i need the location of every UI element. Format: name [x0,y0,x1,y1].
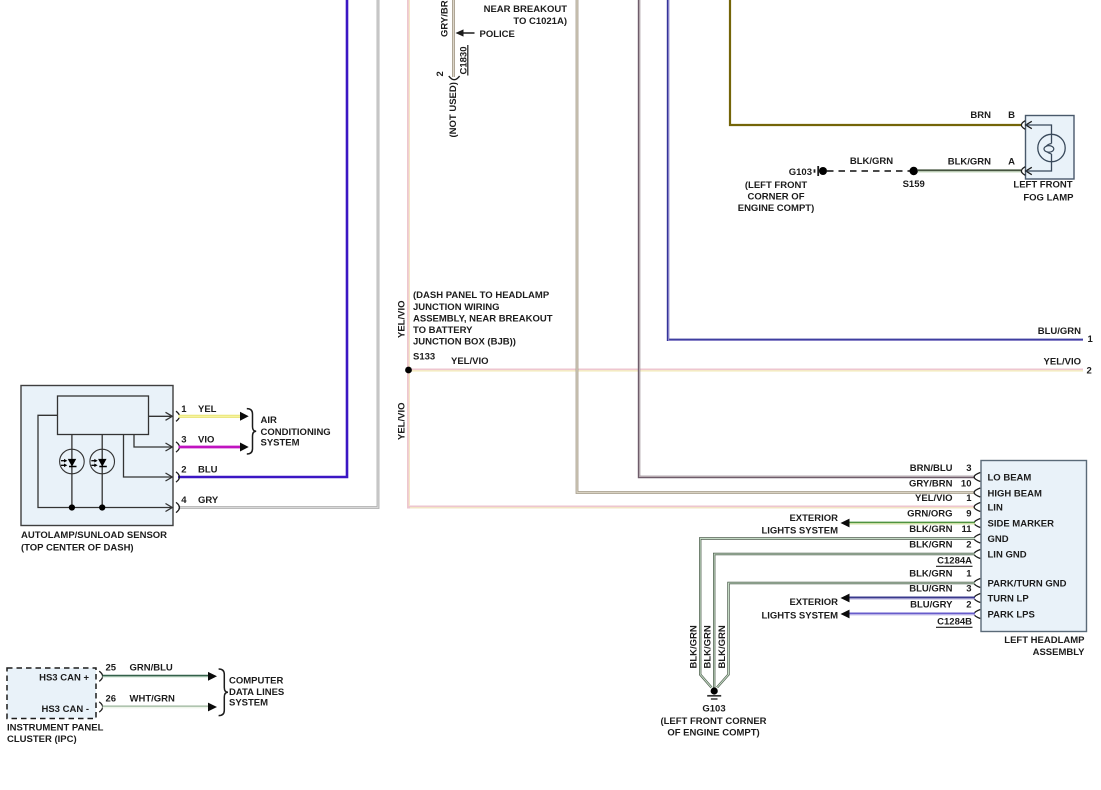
headlamp pin 1 connector cup (PARK/TURN GND) [974,579,980,588]
svg-text:2: 2 [1087,366,1092,377]
wire GRN/BLU from IPC pin 25 [103,672,218,681]
svg-text:PARK/TURN GND: PARK/TURN GND [988,579,1067,590]
wire GRN/ORG from exterior lights system arrow to pin 9 [841,519,976,528]
pin 26 and WHT/GRN labels [106,694,176,705]
svg-text:SIDE MARKER: SIDE MARKER [988,519,1055,530]
svg-text:1: 1 [1088,334,1094,345]
headlamp pin 11 connector cup (GND) [974,534,980,543]
fog lamp caption [1013,180,1074,204]
svg-text:2: 2 [181,465,186,476]
wire label BLK/GRN pin 2 [909,540,971,551]
svg-text:2: 2 [435,71,446,76]
wire YEL/VIO horizontal from S133 to right edge pin 2 [409,369,1084,373]
svg-text:11: 11 [961,524,972,535]
wire label YEL/VIO pin 1 [915,493,972,504]
instrument panel cluster box (dashed) [7,668,96,719]
svg-text:BLK/GRN: BLK/GRN [948,157,991,168]
label YEL/VIO and pin 2 at right edge [1044,357,1092,377]
svg-text:4: 4 [181,495,187,506]
G103 location text (LEFT FRONT CORNER OF ENGINE COMPT) [738,180,815,214]
svg-text:A: A [1008,157,1015,168]
svg-text:LEFT FRONT: LEFT FRONT [1013,180,1072,191]
svg-text:YEL/VIO: YEL/VIO [397,301,408,338]
svg-text:JUNCTION WIRING: JUNCTION WIRING [413,302,500,313]
svg-text:S159: S159 [903,179,925,190]
svg-text:AUTOLAMP/SUNLOAD SENSOR: AUTOLAMP/SUNLOAD SENSOR [21,530,167,541]
svg-text:ASSEMBLY: ASSEMBLY [1033,647,1086,658]
sensor pin 2 connector cup [176,472,179,482]
svg-text:LIGHTS SYSTEM: LIGHTS SYSTEM [761,526,838,537]
YEL wire arrow into air conditioning system [240,412,249,421]
ground G103 labels [660,704,766,739]
photodiode D1 vertical wire [71,435,73,508]
svg-text:2: 2 [966,540,971,551]
svg-text:FOG LAMP: FOG LAMP [1023,193,1074,204]
sensor pin 1 connector cup [176,411,179,421]
svg-text:G103: G103 [789,167,812,178]
svg-text:YEL/VIO: YEL/VIO [1044,357,1081,368]
svg-text:BLK/GRN: BLK/GRN [689,625,700,668]
wire BRN/BLU from top edge to headlamp LO BEAM pin 3 [639,0,975,477]
svg-text:BLK/GRN: BLK/GRN [717,625,728,668]
wire BLK/GRN pin 1 (PARK/TURN GND) down to G103 [717,583,975,688]
splice S159 junction dot [910,167,918,175]
wire YEL/VIO vertical from top through splice S133 to headlamp LIN pin 1 [409,0,976,508]
label BLU/GRN and pin 1 at right edge [1038,326,1094,345]
VIO wire arrow into air conditioning system [240,443,249,452]
svg-text:26: 26 [106,694,117,705]
svg-text:TO C1021A): TO C1021A) [513,16,567,27]
svg-text:2: 2 [966,600,971,611]
svg-text:BLU/GRN: BLU/GRN [1038,326,1081,337]
svg-text:GRN/BLU: GRN/BLU [130,663,173,674]
svg-text:BLK/GRN: BLK/GRN [703,625,714,668]
sensor internal ground bus wire to pin 4 with arrow [38,415,172,511]
svg-text:CLUSTER (IPC): CLUSTER (IPC) [7,734,77,745]
sensor caption [21,530,167,554]
ground G103 symbol at bottom [707,687,721,699]
wire BLU/GRY (PARK LPS) from exterior lights arrow to pin 2 [841,610,976,619]
brace to computer data lines system [219,669,228,716]
svg-text:10: 10 [961,478,972,489]
svg-text:PARK LPS: PARK LPS [988,610,1035,621]
headlamp pin 2 connector cup (PARK LPS) [974,610,980,619]
pin 1 and YEL labels [181,404,216,415]
svg-text:HS3 CAN -: HS3 CAN - [41,704,89,715]
splice S133 junction dot [405,367,412,374]
wire label GRN/ORG pin 9 [907,509,971,520]
autolamp/sunload sensor box [21,386,173,526]
svg-text:S133: S133 [413,352,435,363]
sensor internal wire to pin 2 with arrow [124,435,173,482]
connector label C1284B underlined [936,617,973,628]
svg-text:YEL: YEL [198,404,217,415]
svg-text:(LEFT FRONT CORNER: (LEFT FRONT CORNER [660,716,766,727]
svg-text:1: 1 [966,569,972,580]
left front fog lamp box [1026,116,1075,180]
svg-text:(DASH PANEL TO HEADLAMP: (DASH PANEL TO HEADLAMP [413,290,550,301]
wire BRN from top edge to fog lamp pin B [730,0,1021,125]
svg-text:EXTERIOR: EXTERIOR [789,597,838,608]
sensor inner module box [58,396,149,435]
svg-text:BRN/BLU: BRN/BLU [910,463,953,474]
headlamp internal pin names [988,473,1067,621]
wire GRY from sensor pin 4 up to top edge [178,0,378,508]
svg-text:TURN LP: TURN LP [988,594,1030,605]
junction dot D1/ground bus [69,504,75,510]
junction dot D2/ground bus [99,504,105,510]
wire BLU from sensor pin 2 up to top edge [178,0,347,477]
svg-text:INSTRUMENT PANEL: INSTRUMENT PANEL [7,723,104,734]
svg-text:ENGINE COMPT): ENGINE COMPT) [738,203,815,214]
svg-text:B: B [1008,110,1015,121]
svg-text:COMPUTER: COMPUTER [229,676,284,687]
svg-text:LIN: LIN [988,503,1003,514]
headlamp pin 2 connector cup (LIN GND) [974,550,980,559]
pin 25 and GRN/BLU labels [106,663,173,674]
IPC pin 25 connector cup [99,671,102,681]
wire label BLK/GRN pin 11 [909,524,972,535]
svg-text:YEL/VIO: YEL/VIO [397,403,408,440]
svg-text:(TOP CENTER OF DASH): (TOP CENTER OF DASH) [21,543,134,554]
headlamp pin 3 connector cup (LO BEAM) [974,473,980,482]
svg-text:9: 9 [966,509,971,520]
node S133 description text (DASH PANEL TO HEADLAMP JUNCTION WIRING ASSEMBLY...) [413,290,553,348]
svg-text:BLU/GRY: BLU/GRY [910,600,953,611]
sensor internal wire to pin 3 with arrow [134,435,172,452]
wire label GRY/BRN pin 10 [909,478,971,489]
svg-text:EXTERIOR: EXTERIOR [789,513,838,524]
svg-text:LIGHTS SYSTEM: LIGHTS SYSTEM [761,611,838,622]
sensor pin 4 connector cup [176,502,179,512]
air conditioning system text [261,415,331,449]
svg-text:(LEFT FRONT: (LEFT FRONT [745,180,807,191]
IPC pin 26 connector cup [99,702,102,712]
exterior lights system text (side marker) [761,513,838,537]
wire GRY/BRN from top edge to headlamp HIGH BEAM pin 10 [577,0,975,493]
photodiode D2 symbol [90,449,115,474]
wire BLK/GRN pin 2 (LIN GND) down to G103 [714,554,975,689]
brace to air conditioning system [247,409,256,454]
svg-text:TO BATTERY: TO BATTERY [413,325,473,336]
pin 3 and VIO labels [181,435,214,446]
svg-text:LEFT HEADLAMP: LEFT HEADLAMP [1004,635,1085,646]
svg-text:AIR: AIR [261,415,278,426]
svg-text:BLU/GRN: BLU/GRN [909,584,952,595]
photodiode D1 symbol [60,449,85,474]
photodiode D2 vertical wire [101,435,103,508]
wire BLK/GRN dashed from G103 to S159 [827,170,910,172]
wire BLU/GRN from top edge to right edge pin 1 [668,0,1083,340]
sensor pin 3 connector cup [176,442,179,452]
ground point G103 symbol (left, near fog lamp) [815,166,828,176]
svg-text:BLK/GRN: BLK/GRN [909,569,952,580]
svg-text:BLK/GRN: BLK/GRN [850,156,893,167]
fog lamp pin A connector cup and arrow [1021,167,1031,176]
wire label BLU/GRN pin 3 [909,584,971,595]
svg-text:GRY/BRN: GRY/BRN [440,0,451,37]
svg-text:SYSTEM: SYSTEM [229,698,268,709]
svg-text:VIO: VIO [198,435,214,446]
headlamp pin 10 connector cup (HIGH BEAM) [974,488,980,497]
svg-text:SYSTEM: SYSTEM [261,438,300,449]
wire label BLK/GRN and pin A at fog lamp [948,157,1015,168]
svg-text:CONDITIONING: CONDITIONING [261,427,331,438]
svg-text:LIN GND: LIN GND [988,550,1027,561]
headlamp pin 1 connector cup (LIN) [974,503,980,512]
svg-text:GRY: GRY [198,495,219,506]
pin 4 and GRY labels [181,495,219,506]
svg-text:LO BEAM: LO BEAM [988,473,1032,484]
svg-text:HIGH BEAM: HIGH BEAM [988,489,1042,500]
label S133 and wire label YEL/VIO [413,352,488,368]
sensor internal wire to pin 1 with arrow [149,412,173,420]
wire label BRN and pin B at fog lamp [970,110,1015,121]
svg-text:BLU: BLU [198,465,218,476]
wire label BLK/GRN pin 1 [909,569,972,580]
headlamp pin 9 connector cup (SIDE MARKER) [974,519,980,528]
exterior lights system text (turn/park) [761,597,838,622]
svg-text:GND: GND [988,534,1009,545]
svg-text:3: 3 [966,584,971,595]
svg-text:OF ENGINE COMPT): OF ENGINE COMPT) [667,727,759,738]
wire YEL from sensor pin 1 [179,415,241,418]
wire WHT/GRN from IPC pin 26 [103,703,218,712]
pin 2 and BLU labels [181,465,217,476]
svg-text:3: 3 [181,435,186,446]
computer data lines system text [229,676,284,709]
wire BLU/GRN (TURN LP) from exterior lights arrow to pin 3 [841,594,976,603]
svg-text:HS3 CAN +: HS3 CAN + [39,673,89,684]
svg-text:CORNER OF: CORNER OF [748,191,805,202]
svg-text:ASSEMBLY, NEAR BREAKOUT: ASSEMBLY, NEAR BREAKOUT [413,313,553,324]
svg-text:BLK/GRN: BLK/GRN [909,524,952,535]
svg-text:BRN: BRN [970,110,991,121]
connector label C1830 (rotated, underlined) [459,45,470,76]
wire label BLU/GRY pin 2 [910,600,971,611]
left headlamp assembly box [981,461,1087,632]
headlamp pin 3 connector cup (TURN LP) [974,594,980,603]
svg-text:3: 3 [966,463,971,474]
svg-text:(NOT USED): (NOT USED) [448,82,459,137]
svg-text:POLICE: POLICE [480,29,515,40]
svg-text:DATA LINES: DATA LINES [229,687,284,698]
svg-text:WHT/GRN: WHT/GRN [130,694,176,705]
svg-text:G103: G103 [702,704,725,715]
fog lamp bulb symbol [1026,125,1065,171]
connector C1830 cup symbol [449,76,460,80]
connector label C1284A underlined [936,556,973,567]
svg-text:GRY/BRN: GRY/BRN [909,478,953,489]
svg-text:C1284B: C1284B [937,617,972,628]
svg-text:1: 1 [966,493,972,504]
svg-text:JUNCTION BOX (BJB)): JUNCTION BOX (BJB)) [413,337,516,348]
wire BLK/GRN pin 11 (GND) down to G103 [700,539,975,688]
svg-text:YEL/VIO: YEL/VIO [915,493,952,504]
svg-text:25: 25 [106,663,117,674]
svg-text:YEL/VIO: YEL/VIO [451,356,488,367]
wire BLK/GRN from S159 to fog lamp pin A [918,170,1021,172]
headlamp caption [1004,635,1085,658]
svg-text:GRN/ORG: GRN/ORG [907,509,952,520]
svg-text:BLK/GRN: BLK/GRN [909,540,952,551]
IPC caption [7,723,104,746]
wire GRY/BRN stub from top edge to connector C1830 [452,0,455,77]
description text NEAR BREAKOUT TO C1021A) at top [484,4,568,27]
svg-text:1: 1 [181,404,187,415]
fog lamp pin B connector cup and arrow [1021,121,1031,130]
POLICE arrow pointing at C1830 wire [456,29,515,40]
wire VIO from sensor pin 3 [179,446,241,449]
wire label BRN/BLU pin 3 [910,463,972,474]
svg-text:NEAR BREAKOUT: NEAR BREAKOUT [484,4,568,15]
svg-text:C1284A: C1284A [937,556,972,567]
